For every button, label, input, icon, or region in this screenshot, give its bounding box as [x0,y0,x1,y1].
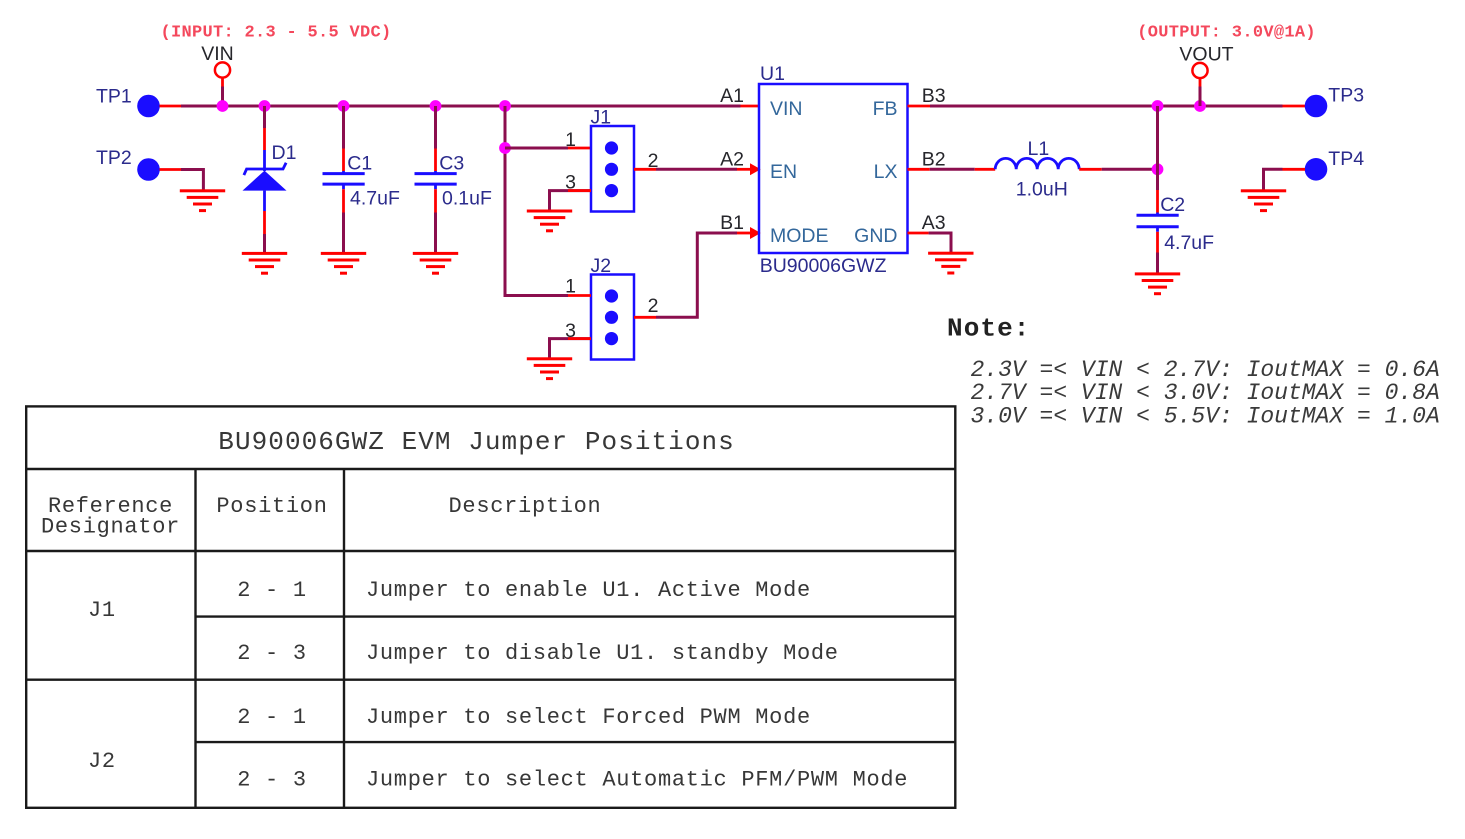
wire GND pin to ground [929,233,951,253]
capacitor C1 bottom plate [323,183,365,186]
ground C1 [321,252,366,275]
svg-text:L1: L1 [1028,138,1050,160]
pin stub GND (red) [908,232,929,235]
wire output rail [930,105,1283,108]
table column line 1 [194,469,196,808]
jumper table frame [26,406,955,807]
pin stub C3 top (red) [434,149,437,172]
pin stub J2-2 (red) [634,316,656,319]
svg-text:2 - 1: 2 - 1 [237,578,307,603]
svg-text:GND: GND [854,225,897,247]
wire rail to C1 [342,106,345,149]
connector J2 body [591,275,634,360]
wire J2 pin3 to ground [550,339,592,359]
pin A1 stub (red) [741,105,760,108]
capacitor C2 top plate [1137,214,1179,217]
pin stub MODE (red) [737,232,751,235]
pin stub C2 top (red) [1156,190,1159,213]
pin EN arrow [750,163,761,175]
pin stub TP3 (red) [1283,105,1306,108]
svg-text:2.7V =< VIN < 3.0V: IoutMAX =: 2.7V =< VIN < 3.0V: IoutMAX = 0.8A [971,380,1440,406]
connector J1 pin1 dot [605,141,618,154]
connector J2 pin3 dot [605,332,618,345]
junction at D1 branch [259,100,271,112]
svg-text:J1: J1 [88,598,116,623]
svg-text:2 - 1: 2 - 1 [237,705,307,730]
svg-text:Jumper to select Automatic PFM: Jumper to select Automatic PFM/PWM Mode [366,768,908,793]
svg-text:Description: Description [449,494,602,519]
ground D1 [242,252,287,275]
pin stub TP4 (red) [1283,168,1306,171]
svg-text:2.3V =< VIN < 2.7V: IoutMAX =: 2.3V =< VIN < 2.7V: IoutMAX = 0.6A [971,357,1440,383]
wire D1 to ground [263,234,266,253]
ground C3 [413,252,458,275]
svg-text:TP1: TP1 [96,86,132,108]
svg-text:A2: A2 [720,148,744,170]
wire VOUT terminal stub (red) [1199,78,1202,86]
pin stub C1 top (red) [342,149,345,172]
pin stub C1 bottom (red) [342,189,345,212]
pin stub J1-3 (red) [568,189,591,192]
junction at jumper branch [499,100,511,112]
table column line 2 [343,469,345,808]
svg-text:BU90006GWZ: BU90006GWZ [760,255,887,277]
svg-text:C3: C3 [439,152,464,174]
svg-text:A3: A3 [922,212,946,234]
diode D1 triangle [243,171,287,191]
svg-text:BU90006GWZ EVM Jumper Position: BU90006GWZ EVM Jumper Positions [218,427,735,457]
wire C2 to ground [1156,253,1159,274]
IC U1 body [759,84,908,253]
wire VIN terminal stub (red) [221,78,224,87]
wire TP4 to ground [1264,169,1283,191]
capacitor C3 top plate [415,172,457,175]
svg-text:0.1uF: 0.1uF [442,187,492,209]
wire rail to D1 [263,106,266,128]
pin stub L1 left (red) [975,168,996,171]
svg-text:1.0uH: 1.0uH [1016,178,1068,200]
ground TP4 [1241,189,1286,212]
svg-text:B2: B2 [922,148,946,170]
svg-text:FB: FB [873,98,898,120]
junction at VOUT tap [1194,100,1206,112]
svg-text:2 - 3: 2 - 3 [237,768,307,793]
svg-text:Note:: Note: [947,314,1031,344]
svg-text:LX: LX [874,161,898,183]
connector J1 body [591,126,634,212]
pin stub J2-3 (red) [568,337,591,340]
svg-text:Position: Position [216,494,327,519]
wire TP1 pin stub (red) [160,105,182,108]
connector J2 pin1 dot [605,289,618,302]
pin stub L1 right (red) [1079,168,1102,171]
diode D1 cathode lead [263,150,266,171]
svg-text:(OUTPUT: 3.0V@1A): (OUTPUT: 3.0V@1A) [1137,24,1316,43]
capacitor C2 lower lead [1156,227,1159,232]
wire J1 pin1 [505,147,568,150]
svg-text:C1: C1 [347,152,372,174]
table title row line [26,468,955,470]
wire C3 to ground [434,213,437,254]
pin stub C3 bottom (red) [434,189,437,212]
wire rail to C3 [434,106,437,149]
svg-text:MODE: MODE [770,225,829,247]
svg-text:TP4: TP4 [1328,148,1364,170]
capacitor C3 lead [434,171,437,174]
capacitor C2 bottom plate [1137,225,1179,228]
pin stub J1-2 (red) [634,168,656,171]
connector J2 pin2 dot [605,311,618,324]
inductor L1 [995,158,1079,169]
svg-text:Jumper to enable U1. Active Mo: Jumper to enable U1. Active Mode [366,578,811,603]
capacitor C1 lower lead [342,184,345,189]
svg-text:4.7uF: 4.7uF [350,187,400,209]
svg-text:(INPUT: 2.3 - 5.5 VDC): (INPUT: 2.3 - 5.5 VDC) [161,24,392,43]
capacitor C3 lower lead [434,184,437,189]
wire VIN terminal to rail [221,87,224,107]
test point TP1 pad [137,95,160,118]
pin stub EN (red) [737,168,751,171]
connector J1 pin3 dot [605,184,618,197]
capacitor C1 top plate [323,172,365,175]
svg-text:VOUT: VOUT [1179,43,1233,65]
svg-text:D1: D1 [272,142,297,164]
VOUT terminal circle [1192,63,1207,78]
ground C2 [1135,272,1180,295]
test point TP4 pad [1305,158,1328,181]
pin stub FB (red) [908,105,931,108]
wire rail down to C2 [1156,106,1159,190]
wire J1 pin3 to ground [550,191,592,211]
test point TP2 pad [137,158,160,181]
svg-text:VIN: VIN [201,43,234,65]
wire jumper branch vertical [505,106,568,296]
table J1 row separator [196,615,956,617]
wire L1 to C2 branch [1102,168,1158,171]
VIN terminal circle [215,62,230,77]
svg-text:A1: A1 [720,85,744,107]
table J1/J2 separator [26,679,955,681]
wire J2 pin2 to U1 MODE [656,233,737,317]
svg-text:4.7uF: 4.7uF [1164,232,1214,254]
junction at VIN tap [217,100,229,112]
svg-text:EN: EN [770,161,797,183]
pin stub J1-1 (red) [568,147,591,150]
wire J1 pin2 to U1 EN [656,168,737,171]
svg-text:TP3: TP3 [1328,85,1364,107]
junction at L1 / C2 [1152,163,1164,175]
table header row line [26,550,955,552]
pin stub LX (red) [908,168,930,171]
table J2 row separator [196,741,956,743]
svg-text:2 - 3: 2 - 3 [237,641,307,666]
wire VOUT terminal to rail [1199,87,1202,107]
svg-text:VIN: VIN [770,98,803,120]
svg-text:U1: U1 [760,63,785,85]
pin stub J2-1 (red) [568,294,591,297]
svg-text:1: 1 [565,129,576,151]
svg-text:J1: J1 [591,107,612,129]
svg-text:Jumper to select Forced PWM Mo: Jumper to select Forced PWM Mode [366,705,811,730]
junction at C3 branch [430,100,442,112]
diode D1 anode lead [263,191,266,211]
connector J1 pin2 dot [605,163,618,176]
wire TP2 to ground [181,170,203,191]
svg-text:Jumper to disable U1. standby: Jumper to disable U1. standby Mode [366,641,839,666]
diode D1 zener bar [244,163,286,175]
svg-text:B3: B3 [922,85,946,107]
junction at C1 branch [338,100,350,112]
wire LX to L1 [930,168,975,171]
wire C1 to ground [342,213,345,254]
svg-text:3.0V =< VIN < 5.5V: IoutMAX =: 3.0V =< VIN < 5.5V: IoutMAX = 1.0A [971,403,1440,429]
test point TP3 pad [1305,95,1328,118]
ground J1 [527,210,572,233]
svg-text:B1: B1 [720,212,744,234]
wire TP2 pin stub (red) [160,168,182,171]
capacitor C2 lead [1156,213,1159,216]
pin stub D1 anode (red) [263,211,266,234]
pin stub D1 cathode (red) [263,128,266,150]
pin stub C2 bottom (red) [1156,232,1159,253]
pin MODE arrow [750,227,761,239]
junction at C2 branch on rail [1152,100,1164,112]
ground U1 [928,252,973,275]
wire main input rail [181,105,741,108]
ground TP2 [180,189,225,212]
svg-text:Designator: Designator [41,515,180,540]
svg-text:TP2: TP2 [96,147,132,169]
svg-text:2: 2 [648,295,659,317]
svg-text:1: 1 [565,276,576,298]
svg-text:J2: J2 [88,749,116,774]
junction at J1 pin 1 branch [499,142,511,154]
svg-text:C2: C2 [1160,194,1185,216]
ground J2 [527,357,572,380]
capacitor C3 bottom plate [415,183,457,186]
capacitor C1 lead [342,171,345,174]
